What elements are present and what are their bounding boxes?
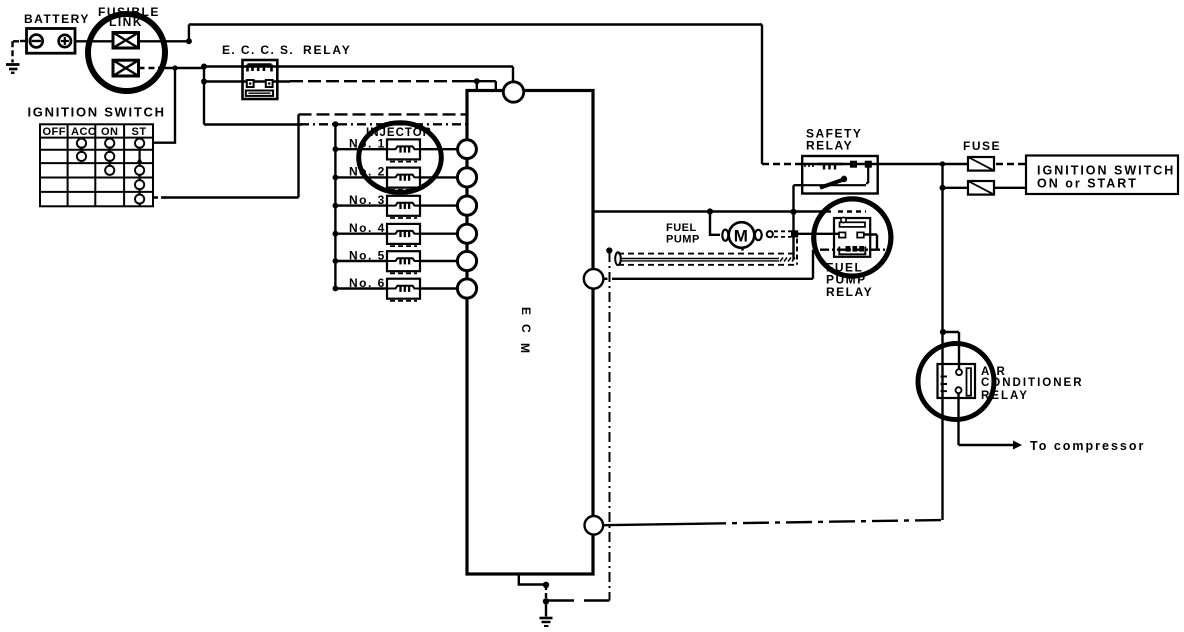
wire stub to ECM top <box>476 81 478 90</box>
svg-text:ON: ON <box>101 126 119 138</box>
safety relay K1 <box>802 156 878 194</box>
wire from ignition ST row5 <box>153 196 166 198</box>
wire fuse1 to ignition box <box>996 163 1026 165</box>
ground ECM <box>540 618 553 626</box>
compressor arrow <box>1013 441 1022 450</box>
ground battery <box>6 65 20 73</box>
wire into safety relay (dashed) <box>762 163 802 165</box>
E.C.C.S. relay U1 <box>243 60 278 99</box>
injector highlight circle <box>359 123 442 193</box>
ECM label <box>518 307 533 355</box>
wire top rail <box>189 23 762 25</box>
wire eccs relay pin row <box>204 80 290 82</box>
wire ECM pin to fp relay <box>604 278 611 280</box>
wire fusible link2 out <box>139 67 161 69</box>
svg-text:BATTERY: BATTERY <box>24 12 90 26</box>
connector bullet fuel pump <box>767 231 773 237</box>
ECM right pin circle lower <box>585 516 604 535</box>
wire to ECM left (dashed) <box>299 113 468 115</box>
wire safety relay to fuse1 <box>802 163 968 165</box>
wire drop to ignition table ST <box>153 68 175 143</box>
svg-text:E. C. C. S.: E. C. C. S. <box>222 43 294 57</box>
ECM right pin circle upper <box>584 269 604 289</box>
injector No.2 <box>335 168 458 190</box>
svg-text:No. 6: No. 6 <box>349 276 386 290</box>
fusible link circle <box>88 14 165 91</box>
injector bus nodes <box>333 146 339 291</box>
svg-text:No. 4: No. 4 <box>349 221 386 235</box>
svg-text:CONDITIONER: CONDITIONER <box>981 377 1084 389</box>
svg-text:No. 5: No. 5 <box>349 248 386 262</box>
fuel pump label <box>666 222 700 246</box>
wire eccs bus vertical <box>203 67 205 125</box>
wire fusible link1 to junction <box>139 40 189 42</box>
ignition switch box text <box>1037 164 1175 191</box>
node junction x175 <box>172 65 177 70</box>
node eccs bus mid <box>201 79 207 85</box>
ignition table headers <box>43 126 147 138</box>
node ECM ground j2 <box>543 598 549 604</box>
svg-text:IGNITION SWITCH: IGNITION SWITCH <box>28 105 166 120</box>
node motor wire junction <box>791 230 798 237</box>
wire riser to top rail <box>188 25 190 42</box>
air conditioner relay K3 <box>938 364 976 398</box>
ECM box U2 <box>467 91 593 575</box>
svg-text:RELAY: RELAY <box>806 139 853 153</box>
fusible link 2 <box>113 60 139 76</box>
node fuse2 junction <box>940 185 946 191</box>
wire bus to ECM lower pin <box>603 524 702 526</box>
battery B1 <box>27 29 76 54</box>
svg-text:ST: ST <box>132 126 147 138</box>
node AC branch <box>940 329 946 335</box>
node injector bus top <box>332 121 338 127</box>
shielded cable end ticks <box>780 258 795 262</box>
fuel pump relay K2 internals <box>834 217 870 256</box>
ignition table contact links <box>82 147 140 207</box>
wire rail drop to safety relay <box>761 25 763 165</box>
injector No.5 <box>335 251 458 273</box>
wire AC branch <box>943 332 959 370</box>
wire fp relay bottom dash-dot <box>820 248 886 250</box>
node safety relay contact <box>841 176 847 182</box>
wire fuel pump connector dashes <box>774 231 791 237</box>
shield drain node <box>606 247 612 253</box>
wire to compressor <box>959 393 1014 445</box>
injector bus vertical <box>334 124 336 288</box>
air conditioner relay label <box>981 366 1084 402</box>
wire to ECM ground <box>545 601 547 616</box>
shielded cable box <box>615 239 797 266</box>
injector No.4 <box>335 224 458 246</box>
svg-text:RELAY: RELAY <box>303 43 352 57</box>
fuel pump relay label <box>826 261 873 300</box>
wire eccs relay top <box>204 65 513 67</box>
svg-text:ACC: ACC <box>71 126 96 138</box>
wire drain bottom <box>546 599 610 601</box>
node bus top junction <box>940 161 945 166</box>
injector No.1 <box>335 139 458 161</box>
svg-text:IGNITION SWITCH: IGNITION SWITCH <box>1037 164 1175 178</box>
node fuel line j1 <box>707 208 713 214</box>
fusible link 1 <box>113 33 139 49</box>
wire fuse2 to ignition box <box>994 187 1026 189</box>
node safety relay pin a <box>850 161 857 168</box>
wire to fuel pump relay pin <box>795 233 840 235</box>
injector No.6 <box>335 279 458 301</box>
svg-text:RELAY: RELAY <box>826 285 873 299</box>
wire drop to ECM top pin <box>512 67 514 84</box>
ECM injector pin circles <box>457 140 476 298</box>
injector No.3 <box>335 196 458 218</box>
svg-text:E: E <box>519 307 533 317</box>
wire right bus vertical <box>941 164 943 520</box>
svg-text:No. 3: No. 3 <box>349 193 386 207</box>
node safety relay pin b <box>865 161 872 168</box>
fuse F2 <box>968 181 994 195</box>
fuse F1 <box>968 157 994 171</box>
wire motor branch <box>710 212 720 235</box>
wire eccs bus corner to injector bus <box>204 123 302 125</box>
wire safety relay riser <box>794 185 803 259</box>
wire second stub to ECM top <box>495 81 497 90</box>
wire ECM bottom tab <box>519 574 546 585</box>
safety relay label <box>806 127 862 153</box>
svg-text:PUMP: PUMP <box>666 234 700 246</box>
node ECM ground j1 <box>543 582 549 588</box>
ECM top pin circle <box>503 82 523 102</box>
ignition switch box <box>1026 156 1178 195</box>
svg-text:FUEL: FUEL <box>666 222 697 234</box>
node junction fusible <box>186 38 192 44</box>
svg-text:OFF: OFF <box>43 126 67 138</box>
ignition ST arrow <box>137 157 143 163</box>
node eccs bus top <box>201 64 207 70</box>
svg-text:M: M <box>734 227 748 246</box>
svg-text:To compressor: To compressor <box>1030 439 1145 453</box>
ignition table contacts <box>77 139 144 204</box>
wire dashed ground stub <box>545 585 547 601</box>
svg-text:FUSE: FUSE <box>963 139 1001 153</box>
svg-text:ON or START: ON or START <box>1037 177 1138 191</box>
fuel pump relay comb teeth <box>846 246 864 252</box>
wire shield drain vertical <box>609 252 611 601</box>
shielded cable inner wire <box>621 259 780 261</box>
node junction ECM top <box>474 78 480 84</box>
wire battery to ground <box>20 40 27 42</box>
wire battery to fusible link <box>75 40 113 42</box>
fuel pump relay circle <box>814 199 891 276</box>
wire bus to fuse2 <box>943 187 969 189</box>
fuel pump motor M1 <box>722 222 761 250</box>
wire ECM to fuel pump line <box>593 210 831 212</box>
air conditioner relay circle <box>918 344 994 420</box>
svg-text:C: C <box>519 324 533 334</box>
svg-text:M: M <box>518 343 532 355</box>
node fuel line j2 <box>790 209 796 215</box>
wire fp relay right pin <box>864 235 877 250</box>
ignition switch table S1 <box>40 124 153 206</box>
svg-text:RELAY: RELAY <box>981 390 1029 402</box>
